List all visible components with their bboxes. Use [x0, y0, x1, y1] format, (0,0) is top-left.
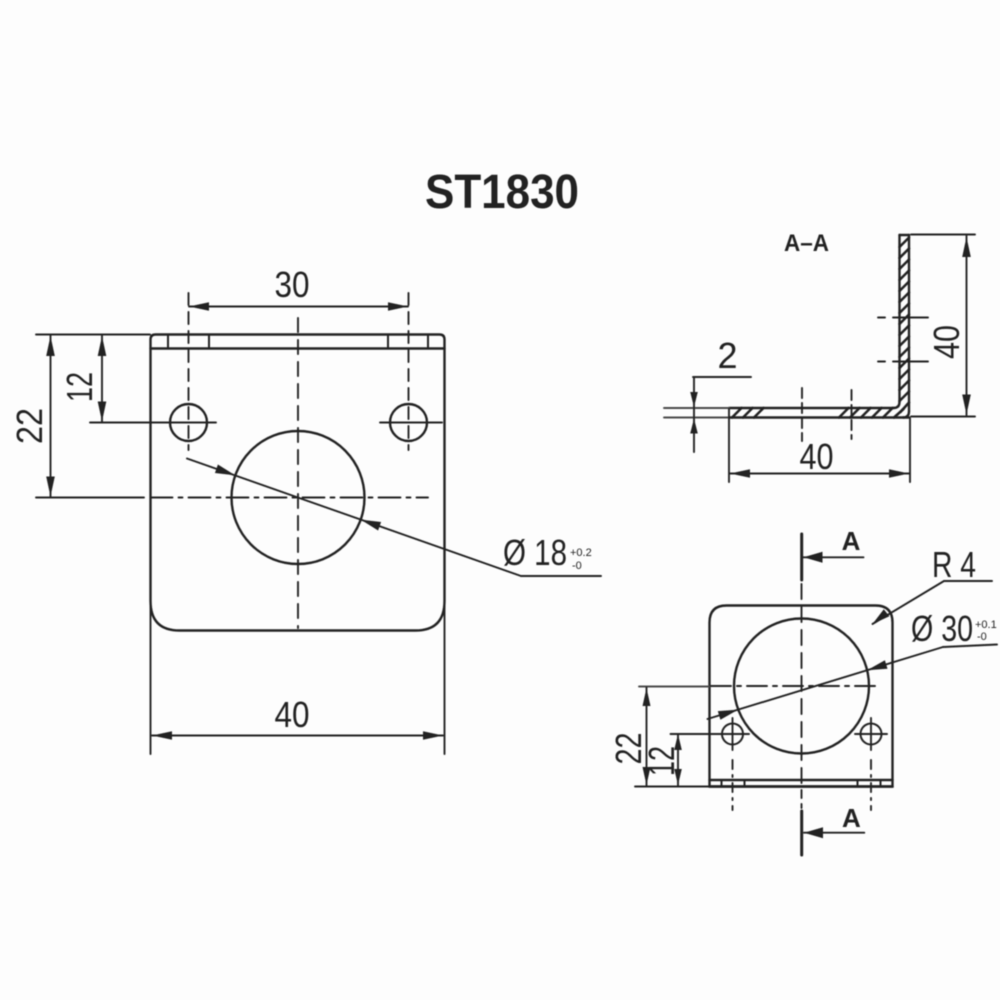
svg-text:40: 40: [275, 694, 310, 735]
svg-text:40: 40: [800, 436, 834, 477]
svg-text:+0.2: +0.2: [570, 547, 592, 559]
svg-text:2: 2: [718, 335, 738, 376]
svg-text:12: 12: [641, 746, 682, 776]
svg-text:30: 30: [275, 264, 310, 305]
svg-text:A: A: [842, 803, 861, 833]
svg-text:-0: -0: [572, 560, 582, 572]
svg-text:ST1830: ST1830: [425, 166, 579, 219]
svg-text:R 4: R 4: [932, 544, 976, 585]
svg-text:+0.1: +0.1: [975, 619, 997, 631]
svg-text:Ø 18: Ø 18: [503, 532, 567, 573]
svg-text:A: A: [842, 526, 861, 556]
svg-text:12: 12: [59, 372, 100, 402]
svg-text:Ø 30: Ø 30: [911, 608, 973, 649]
svg-text:-0: -0: [977, 631, 987, 643]
svg-text:A–A: A–A: [784, 230, 829, 257]
svg-text:22: 22: [9, 408, 50, 444]
svg-text:40: 40: [926, 325, 967, 359]
